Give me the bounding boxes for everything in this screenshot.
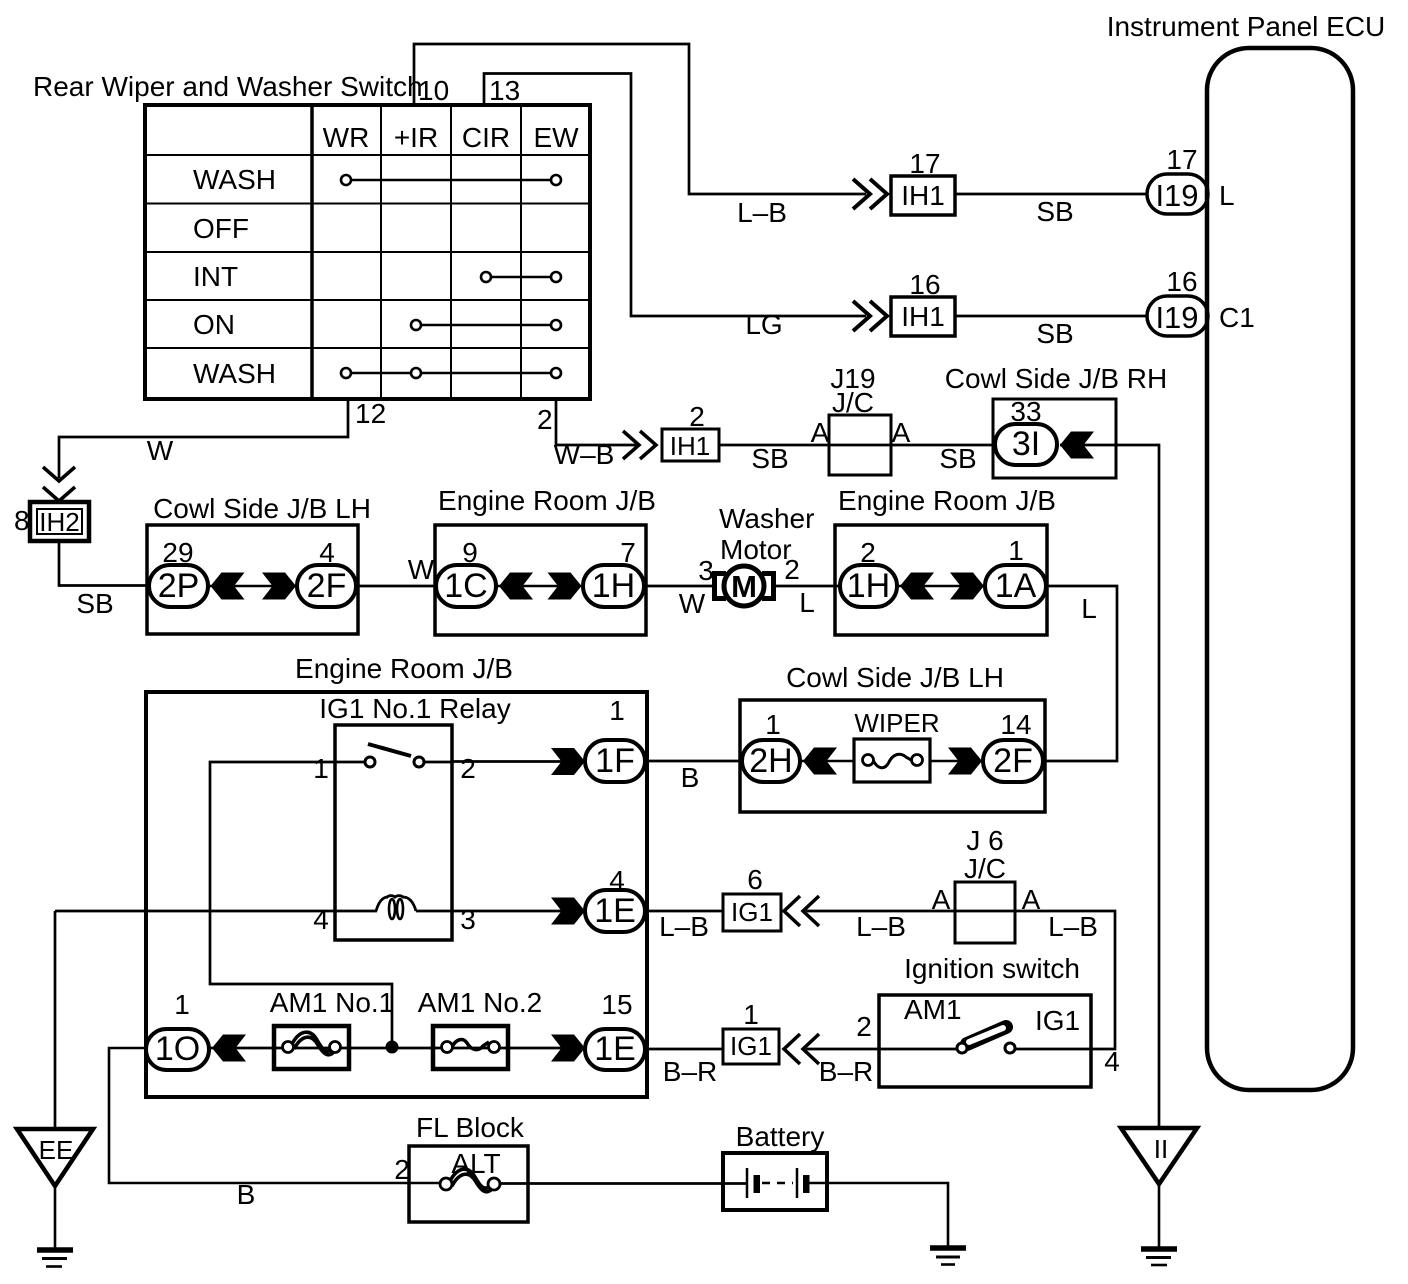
svg-text:1: 1	[609, 695, 625, 726]
svg-text:L–B: L–B	[659, 911, 709, 942]
svg-text:L: L	[799, 587, 815, 618]
svg-text:AM1 No.1: AM1 No.1	[270, 987, 395, 1018]
ground (battery)	[930, 1248, 966, 1265]
svg-text:ALT: ALT	[451, 1148, 500, 1179]
junction dot	[386, 1041, 398, 1053]
svg-text:3: 3	[460, 904, 476, 935]
ECU pin name L	[1219, 180, 1235, 211]
svg-text:A: A	[811, 417, 830, 448]
svg-text:1: 1	[174, 989, 190, 1020]
svg-text:1H: 1H	[592, 567, 635, 605]
junction block Engine Room J/B (large)	[146, 653, 647, 1097]
svg-text:SB: SB	[1036, 196, 1073, 227]
svg-text:AM1 No.2: AM1 No.2	[418, 987, 543, 1018]
switch SW1 contact table	[145, 105, 590, 399]
svg-text:IG1 No.1 Relay: IG1 No.1 Relay	[319, 693, 510, 724]
svg-text:ON: ON	[193, 309, 235, 340]
wire 1E to IG1-6	[645, 910, 723, 913]
wire label SB	[939, 443, 976, 474]
ECU pin name C1	[1219, 302, 1255, 333]
svg-text:6: 6	[747, 864, 763, 895]
connector arrows into IH1-2	[623, 431, 656, 459]
arrow right (1A side)	[950, 573, 984, 600]
wire IH2 to 2P (net SB)	[59, 541, 150, 586]
wire FL block to battery	[500, 1182, 747, 1185]
wire label B	[237, 1179, 256, 1210]
pin 10 label	[418, 75, 449, 106]
wire label L	[1081, 593, 1097, 624]
svg-text:1F: 1F	[595, 742, 635, 780]
svg-text:4: 4	[1104, 1046, 1120, 1077]
relay pin 2 label	[460, 753, 476, 784]
svg-text:Cowl Side J/B RH: Cowl Side J/B RH	[945, 363, 1168, 394]
svg-text:WIPER: WIPER	[854, 708, 939, 738]
wire label LG	[745, 309, 782, 340]
svg-text:IG1: IG1	[731, 897, 773, 927]
connector 1E pin 15	[585, 989, 645, 1070]
wire relay pin2 to 1F (net B)	[452, 760, 585, 763]
wire label W	[679, 588, 706, 619]
wire IH1-16 to I19-16 (net SB)	[955, 315, 1147, 318]
svg-text:L–B: L–B	[737, 197, 787, 228]
svg-text:L: L	[1081, 593, 1097, 624]
wire relay coil row (net L-B)	[55, 910, 585, 913]
svg-text:1C: 1C	[444, 567, 487, 605]
svg-text:W: W	[408, 554, 435, 585]
wire pin13 to IH1-16 (net LG)	[484, 74, 866, 317]
wire label SB	[751, 443, 788, 474]
wire label SB	[76, 588, 113, 619]
connector 1F pin 1	[585, 695, 645, 782]
svg-text:L–B: L–B	[856, 911, 906, 942]
arrow right (2F side)	[948, 748, 982, 775]
junction block Cowl Side J/B RH	[945, 363, 1168, 478]
svg-text:II: II	[1154, 1134, 1168, 1164]
wire fuse row	[209, 1047, 585, 1050]
svg-text:LG: LG	[745, 309, 782, 340]
wire 2H to fuse	[800, 760, 854, 763]
svg-text:Instrument Panel ECU: Instrument Panel ECU	[1107, 11, 1386, 42]
svg-text:17: 17	[909, 148, 940, 179]
motor pin 3 label	[698, 555, 714, 586]
svg-text:Washer: Washer	[719, 503, 814, 534]
junction block Cowl Side J/B LH (wiper)	[740, 662, 1045, 812]
connector IG1 pin 6	[723, 864, 781, 931]
switch SW1 INT row contact CIR-EW	[481, 272, 561, 282]
svg-text:IH1: IH1	[901, 301, 945, 332]
ignition pin 2 label	[856, 1011, 872, 1042]
svg-text:FL Block: FL Block	[416, 1112, 525, 1143]
arrow right (1E side)	[551, 898, 585, 925]
svg-text:W–B: W–B	[554, 439, 615, 470]
washer motor M1	[715, 503, 815, 606]
svg-text:16: 16	[909, 269, 940, 300]
svg-text:2F: 2F	[993, 742, 1033, 780]
switch SW1 WASH(up) row contact WR-EW	[341, 175, 561, 185]
svg-text:8: 8	[14, 505, 30, 536]
svg-text:1A: 1A	[995, 567, 1037, 605]
junction block Engine Room J/B (right)	[835, 485, 1056, 635]
junction connector J19 J/C	[811, 363, 993, 475]
wire 1C to 1H internal	[496, 585, 583, 588]
svg-text:IH2: IH2	[39, 507, 79, 537]
svg-text:B–R: B–R	[819, 1056, 873, 1087]
wire ignition AM1 pin2 to IG1-1 (net B-R)	[806, 1048, 879, 1051]
svg-text:SB: SB	[76, 588, 113, 619]
wire IH1-17 to I19-17 (net SB)	[955, 193, 1147, 196]
wire 1O to FL block (net B)	[109, 1048, 441, 1183]
svg-text:1E: 1E	[594, 1030, 636, 1068]
svg-text:1: 1	[1008, 535, 1024, 566]
svg-text:2: 2	[394, 1154, 410, 1185]
svg-text:M: M	[731, 569, 757, 604]
wire label L-B	[1048, 911, 1098, 942]
wire 1H to 1A internal	[897, 585, 985, 588]
wire label W	[408, 554, 435, 585]
wire pin10 to IH1-17 (net L-B)	[414, 44, 866, 194]
connector 1E pin 4	[585, 865, 645, 932]
svg-text:Cowl Side J/B LH: Cowl Side J/B LH	[153, 493, 371, 524]
svg-text:IH1: IH1	[901, 180, 945, 211]
svg-text:15: 15	[601, 989, 632, 1020]
wire label B	[681, 762, 700, 793]
FL block with ALT fusible link	[394, 1112, 528, 1222]
svg-text:SB: SB	[751, 443, 788, 474]
svg-text:3: 3	[698, 555, 714, 586]
wire motor to 1H (net L)	[774, 585, 841, 588]
wire 1H to washer motor (net W)	[644, 585, 714, 588]
relay IG1 No.1 Relay	[319, 693, 510, 940]
svg-text:2H: 2H	[749, 742, 792, 780]
ignition switch contacts and lever	[879, 1027, 1091, 1053]
motor pin 2 label	[784, 554, 800, 585]
relay pin 3 label	[460, 904, 476, 935]
svg-text:WASH: WASH	[193, 358, 276, 389]
svg-text:3I: 3I	[1012, 425, 1040, 463]
arrow right (1F side)	[551, 748, 585, 775]
wire label B-R	[819, 1056, 873, 1087]
wire 1F to 2H (net B)	[645, 760, 742, 763]
connector IG1 pin 1	[723, 999, 779, 1064]
svg-text:CIR: CIR	[462, 122, 510, 153]
wire label L-B	[659, 911, 709, 942]
svg-text:1E: 1E	[594, 892, 636, 930]
wire label W-B	[554, 439, 615, 470]
svg-text:Battery: Battery	[736, 1121, 825, 1152]
ground point EE	[17, 1129, 93, 1267]
fuse AM1 No.2	[418, 987, 543, 1069]
svg-text:2: 2	[537, 404, 553, 435]
svg-text:J/C: J/C	[832, 387, 874, 418]
arrow right (1E-15 side)	[551, 1035, 585, 1062]
wire IG1-1 to 1E-15 (net B-R)	[645, 1048, 723, 1051]
svg-text:L: L	[1219, 180, 1235, 211]
svg-text:IG1: IG1	[1035, 1005, 1080, 1036]
wire label W	[147, 435, 174, 466]
arrow left (1O side)	[212, 1035, 246, 1062]
svg-text:10: 10	[418, 75, 449, 106]
switch SW1 WASH(down) row contact WR-+IR-EW	[341, 368, 561, 378]
connector 2H pin 1	[742, 709, 800, 782]
connector 1A pin 1	[985, 535, 1046, 607]
junction block Engine Room J/B (upper)	[435, 485, 656, 635]
connector arrows out of IG1-6	[784, 896, 819, 926]
connector 1H pin 7	[583, 537, 644, 607]
connector IH2 pin 8	[14, 502, 89, 541]
wire label B-R	[663, 1056, 717, 1087]
svg-text:1: 1	[313, 753, 329, 784]
connector IH1 pin 16	[891, 269, 955, 336]
svg-text:1O: 1O	[155, 1030, 200, 1068]
svg-text:1H: 1H	[847, 567, 890, 605]
wire label SB	[1036, 318, 1073, 349]
svg-text:A: A	[892, 417, 911, 448]
svg-text:IG1: IG1	[730, 1031, 772, 1061]
svg-text:Engine Room J/B: Engine Room J/B	[438, 485, 656, 516]
wire J6 to ignition switch pin 4 (net L-B)	[1015, 911, 1115, 1049]
wire label L	[799, 587, 815, 618]
svg-text:W: W	[147, 435, 174, 466]
svg-text:2: 2	[460, 753, 476, 784]
svg-text:EW: EW	[533, 122, 579, 153]
connector IH1 pin 2	[662, 401, 719, 461]
connector arrows into IH1-17	[853, 179, 887, 209]
svg-text:12: 12	[355, 398, 386, 429]
svg-text:J 6: J 6	[966, 825, 1003, 856]
connector I19 pin 16	[1147, 266, 1208, 336]
pin 2 label	[537, 404, 553, 435]
wire label SB	[1036, 196, 1073, 227]
arrow left (3I side)	[1060, 432, 1094, 459]
arrow left (1C side)	[499, 573, 533, 600]
svg-text:4: 4	[313, 904, 329, 935]
svg-text:I19: I19	[1155, 300, 1198, 335]
connector 1H pin 2	[840, 537, 897, 607]
wire 2F to 1C (net W)	[356, 585, 437, 588]
fuse AM1 No.1	[270, 987, 395, 1069]
pin 12 label	[355, 398, 386, 429]
svg-text:OFF: OFF	[193, 213, 249, 244]
arrow right (2F side)	[262, 573, 296, 600]
svg-text:B–R: B–R	[663, 1056, 717, 1087]
svg-text:Engine Room J/B: Engine Room J/B	[838, 485, 1056, 516]
svg-text:Engine Room J/B: Engine Room J/B	[295, 653, 513, 684]
svg-text:I19: I19	[1155, 178, 1198, 213]
svg-text:2F: 2F	[307, 567, 347, 605]
pin 13 label	[489, 75, 520, 106]
svg-text:+IR: +IR	[394, 122, 438, 153]
svg-text:INT: INT	[193, 261, 238, 292]
svg-text:1: 1	[765, 709, 781, 740]
svg-text:Motor: Motor	[720, 534, 792, 565]
svg-text:L–B: L–B	[1048, 911, 1098, 942]
svg-text:2: 2	[689, 401, 705, 432]
connector 1O pin 1	[146, 989, 209, 1070]
junction block Cowl Side J/B LH (upper)	[147, 493, 371, 634]
wire pin2 to IH1-2 (net W-B)	[556, 399, 636, 445]
svg-text:2: 2	[784, 554, 800, 585]
ECU U1 Instrument Panel ECU	[1107, 11, 1386, 1090]
connector 2F pin 4	[297, 537, 356, 607]
svg-text:Rear Wiper and Washer Switch: Rear Wiper and Washer Switch	[33, 71, 423, 102]
wire battery to ground	[808, 1183, 948, 1248]
ignition switch SW2	[879, 953, 1091, 1087]
relay pin 1 label	[313, 753, 329, 784]
wire IH1-2 to J19 (net SB)	[719, 444, 830, 447]
svg-text:13: 13	[489, 75, 520, 106]
svg-text:2: 2	[856, 1011, 872, 1042]
connector arrows into IH2	[43, 467, 75, 501]
svg-text:SB: SB	[939, 443, 976, 474]
svg-text:WR: WR	[323, 122, 370, 153]
wire relay pin4 to EE ground	[54, 911, 57, 1129]
connector I19 pin 17	[1147, 144, 1208, 214]
connector 3I pin 33	[995, 396, 1057, 465]
arrow left (2H side)	[803, 748, 837, 775]
svg-text:B: B	[681, 762, 700, 793]
relay coil	[376, 896, 416, 919]
svg-text:AM1: AM1	[904, 994, 962, 1025]
fuse WIPER	[854, 708, 940, 782]
ignition pin 4 label	[1104, 1046, 1120, 1077]
svg-text:B: B	[237, 1179, 256, 1210]
svg-text:17: 17	[1166, 144, 1197, 175]
arrow left (2P side)	[211, 573, 245, 600]
svg-text:C1: C1	[1219, 302, 1255, 333]
wire pin12 to IH2 (net W)	[59, 399, 348, 478]
relay contact	[365, 744, 452, 767]
svg-text:J/C: J/C	[964, 853, 1006, 884]
ground point II	[1121, 1128, 1197, 1265]
svg-text:16: 16	[1166, 266, 1197, 297]
svg-text:WASH: WASH	[193, 164, 276, 195]
svg-text:1: 1	[743, 999, 759, 1030]
svg-text:Cowl Side J/B LH: Cowl Side J/B LH	[786, 662, 1004, 693]
wire fuse to 2F	[930, 760, 983, 763]
wire relay pin1 feed	[210, 762, 392, 1042]
wire label L-B	[737, 197, 787, 228]
wire 1A to 2F-14 (net L)	[1043, 586, 1117, 761]
wire IG1-6 to J6 (net L-B)	[806, 910, 955, 913]
svg-text:IH1: IH1	[670, 431, 710, 461]
connector 1C pin 9	[436, 537, 496, 607]
svg-text:Ignition switch: Ignition switch	[904, 953, 1080, 984]
arrow right (1H side)	[548, 573, 582, 600]
svg-text:SB: SB	[1036, 318, 1073, 349]
switch SW1 Rear Wiper and Washer Switch label	[33, 71, 423, 102]
junction connector J6 J/C	[932, 825, 1041, 943]
svg-text:W: W	[679, 588, 706, 619]
switch SW1 ON row contact +IR-EW	[411, 320, 561, 330]
connector 2P pin 29	[149, 537, 208, 607]
connector arrows into IH1-16	[853, 301, 887, 331]
connector 2F pin 14	[983, 709, 1043, 782]
connector arrows out of IG1-1	[784, 1034, 819, 1064]
svg-text:A: A	[932, 884, 951, 915]
relay pin 4 label	[313, 904, 329, 935]
connector IH1 pin 17	[891, 148, 955, 215]
arrow left (1H side)	[900, 573, 934, 600]
battery BAT1	[723, 1121, 827, 1210]
svg-text:14: 14	[1000, 709, 1031, 740]
wire 2P to 2F internal	[208, 585, 297, 588]
wire label L-B	[856, 911, 906, 942]
svg-text:2P: 2P	[158, 567, 200, 605]
svg-text:EE: EE	[39, 1135, 74, 1165]
wire 3I to ground II	[1060, 445, 1159, 1128]
